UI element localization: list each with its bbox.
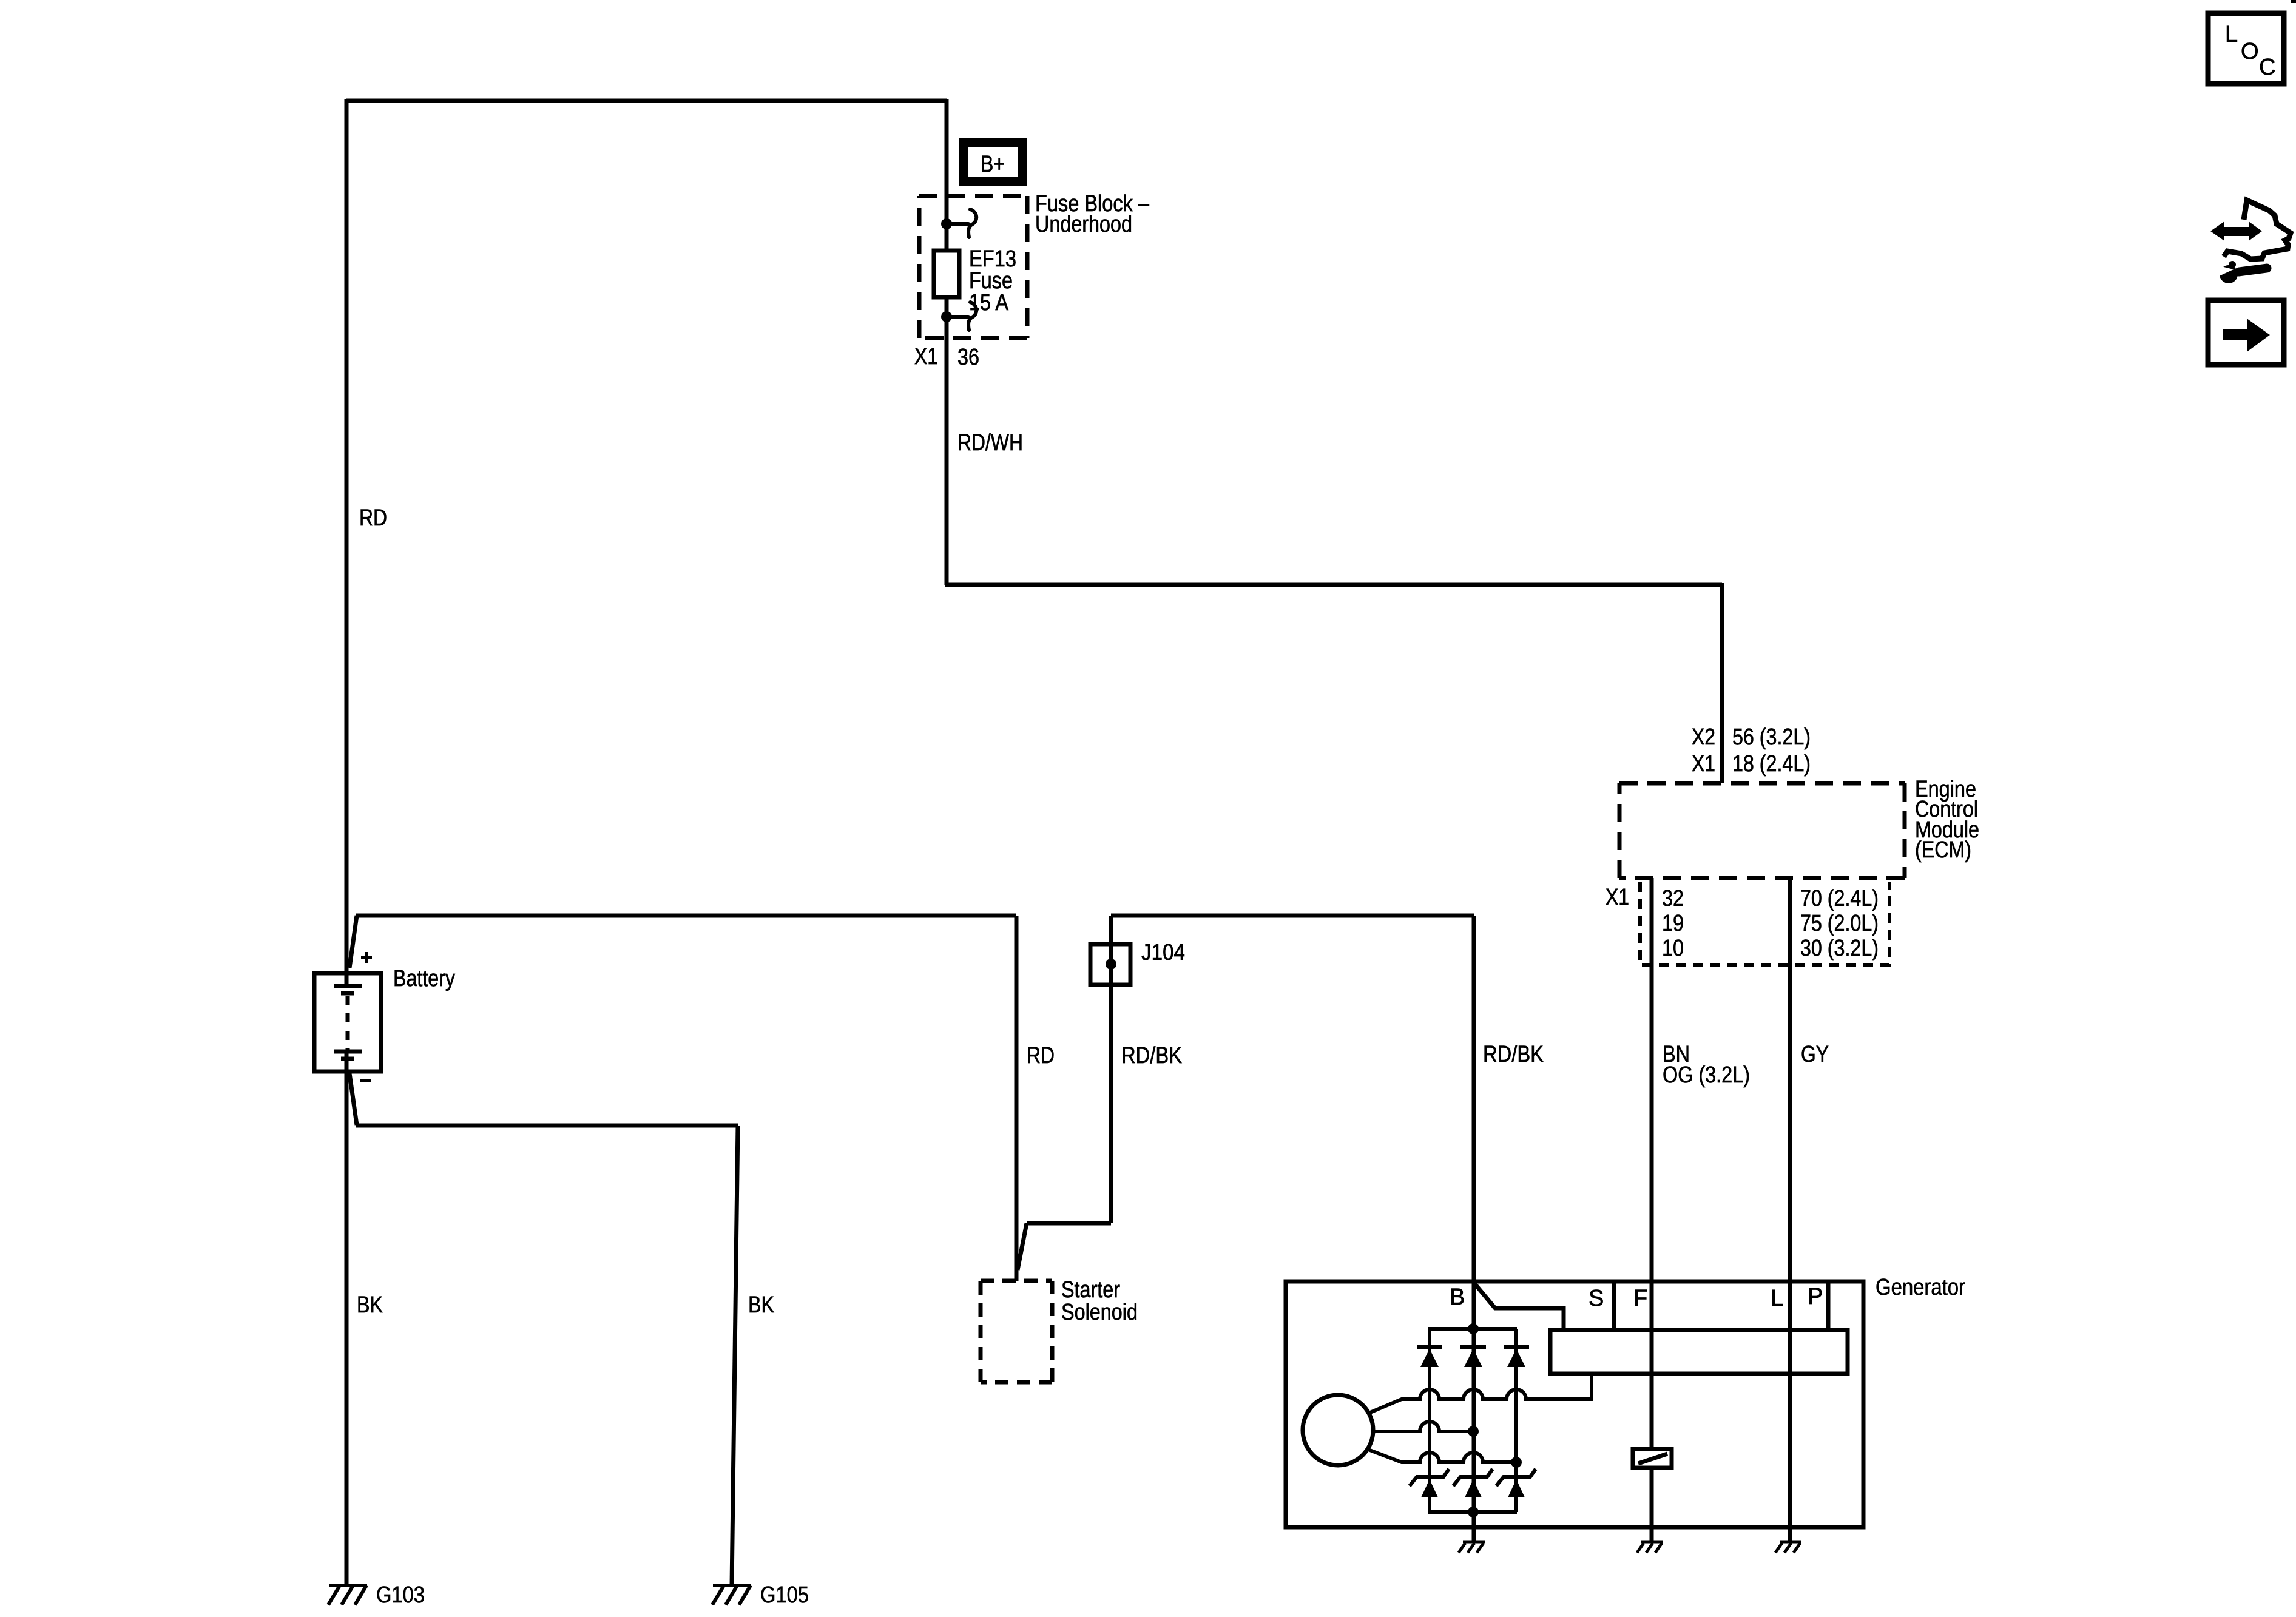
wire: slant splice joint above starter solenoid: [1018, 1223, 1027, 1270]
svg-text:BK: BK: [357, 1292, 383, 1318]
stator winding row 2 with hop: [1373, 1422, 1473, 1431]
wire: RD/WH horizontal run to ECM: [945, 583, 1722, 587]
upper diode triangle column 2: [1464, 1349, 1482, 1367]
wire: RD/BK vertical through J104 splice: [1109, 916, 1113, 1223]
wire: BN field control from ECM to generator F: [1650, 878, 1654, 1542]
rotor circle: [1303, 1395, 1373, 1465]
battery cell 2 long plate: [334, 1050, 362, 1054]
svg-text:J104: J104: [1141, 940, 1185, 965]
svg-text:C: C: [2259, 55, 2275, 80]
stator winding row 3 with hops: [1368, 1450, 1516, 1462]
svg-text:G103: G103: [376, 1582, 425, 1608]
battery cell 1 short plate: [341, 991, 354, 996]
part locator icon: double arrow: [2210, 221, 2262, 241]
wire: RD/BK horizontal from J104 to generator B feed: [1111, 914, 1474, 918]
svg-text:30 (3.2L): 30 (3.2L): [1800, 936, 1879, 961]
svg-text:X1: X1: [1606, 885, 1629, 910]
wire: S terminal stub: [1612, 1281, 1616, 1330]
wire: RD vertical down to starter solenoid: [1015, 916, 1019, 1281]
upper diode triangle column 3: [1507, 1349, 1525, 1367]
svg-text:L: L: [1771, 1286, 1783, 1311]
svg-text:36: 36: [957, 345, 979, 370]
junction dot row 2: [1468, 1426, 1479, 1437]
svg-text:B: B: [1450, 1284, 1465, 1310]
wire: RD/WH vertical drop into ECM pin X2-56 / X1-18: [1720, 583, 1724, 783]
upper diode bar column 1: [1417, 1345, 1442, 1349]
svg-text:B+: B+: [981, 152, 1005, 177]
fuse EF13 element: [934, 251, 959, 297]
stator winding row 1 with hops: [1370, 1374, 1592, 1413]
svg-text:RD/WH: RD/WH: [957, 430, 1023, 456]
starter solenoid dashed box: [981, 1281, 1052, 1382]
junction dot on bottom bus: [1468, 1507, 1479, 1517]
wire: battery positive horizontal bus to starter feed: [356, 914, 1016, 918]
svg-text:32: 32: [1662, 886, 1684, 911]
part locator icon: wrench: [2214, 261, 2267, 283]
lower zener bar column 3: [1496, 1469, 1536, 1486]
svg-text:Solenoid: Solenoid: [1061, 1300, 1138, 1325]
svg-text:L: L: [2225, 22, 2238, 47]
svg-text:RD: RD: [359, 505, 387, 531]
svg-text:X1: X1: [914, 344, 938, 370]
wire: RD/WH vertical through underhood fuse block: [945, 99, 949, 585]
svg-text:X2: X2: [1692, 724, 1715, 750]
wire: RD main vertical from top corner down to battery positive plate: [345, 99, 349, 986]
svg-text:18 (2.4L): 18 (2.4L): [1732, 751, 1811, 777]
diode column 3 vertical: [1514, 1329, 1518, 1512]
junction dot on top bus: [1468, 1323, 1479, 1334]
svg-text:X1: X1: [1692, 751, 1715, 777]
junction dot row 3: [1511, 1457, 1522, 1468]
fusible element on F line: [1633, 1449, 1672, 1468]
lower diode triangle column 2: [1465, 1479, 1482, 1497]
svg-text:BK: BK: [748, 1292, 774, 1318]
wire: P terminal stub: [1826, 1281, 1831, 1330]
forward arrow icon box: [2208, 300, 2284, 365]
lower diode triangle column 1: [1421, 1479, 1438, 1497]
lower diode triangle column 3: [1508, 1479, 1525, 1497]
B+ terminal label box: [959, 138, 1027, 186]
wire: battery negative slant joint: [349, 1073, 357, 1125]
wire: F wire inside generator (over regulator): [1650, 1281, 1654, 1542]
wire: BK vertical down to ground G105: [732, 1126, 738, 1585]
svg-text:RD/BK: RD/BK: [1121, 1043, 1182, 1068]
battery internal dashed link: [346, 996, 350, 1050]
svg-text:O: O: [2241, 39, 2259, 64]
svg-text:OG (3.2L): OG (3.2L): [1663, 1062, 1750, 1088]
terminal hook symbol at fuse output: [947, 302, 976, 330]
upper diode triangle column 1: [1420, 1349, 1439, 1367]
wire: RD battery feed top horizontal run: [346, 99, 947, 103]
svg-text:RD: RD: [1027, 1043, 1055, 1068]
ground symbol below generator L: [1775, 1542, 1801, 1553]
upper diode bar column 2: [1460, 1345, 1486, 1349]
rectifier bottom bus: [1428, 1510, 1517, 1514]
battery box: [314, 973, 381, 1072]
svg-text:70 (2.4L): 70 (2.4L): [1800, 886, 1879, 911]
ECM outer dashed box: [1619, 783, 1905, 878]
generator box: [1286, 1281, 1863, 1527]
svg-text:Starter: Starter: [1061, 1277, 1120, 1303]
svg-text:P: P: [1808, 1284, 1823, 1309]
wire: battery positive slant joint: [349, 916, 357, 968]
wire: GY L-terminal wire from ECM to generator: [1788, 878, 1792, 1542]
rectifier top bus: [1428, 1327, 1517, 1331]
ground G105: [712, 1585, 751, 1605]
part locator icon: part outline: [2224, 200, 2291, 259]
ground G103: [328, 1585, 367, 1605]
lower zener bar column 1: [1410, 1469, 1449, 1486]
svg-text:Generator: Generator: [1876, 1275, 1965, 1300]
fuse block underhood dashed box: [919, 196, 1027, 338]
svg-text:RD/BK: RD/BK: [1483, 1042, 1544, 1067]
svg-text:(ECM): (ECM): [1915, 837, 1971, 863]
LOC icon box top right: [2208, 13, 2284, 84]
svg-text:GY: GY: [1801, 1042, 1829, 1067]
svg-text:10: 10: [1662, 936, 1684, 961]
svg-text:F: F: [1633, 1286, 1647, 1311]
terminal hook symbol at fuse input: [947, 209, 976, 237]
junction dot: J104: [1106, 959, 1116, 970]
diode column 1 vertical: [1428, 1329, 1431, 1512]
battery cell 1 long plate: [334, 984, 362, 988]
svg-text:Battery: Battery: [393, 966, 455, 991]
svg-text:G105: G105: [760, 1582, 809, 1608]
lower zener bar column 2: [1453, 1469, 1493, 1486]
ground symbol below generator B: [1459, 1542, 1485, 1553]
wire: B jog into regulator: [1474, 1283, 1564, 1330]
upper diode bar column 3: [1504, 1345, 1529, 1349]
wire: horizontal from RD wire to J104 branch: [1027, 1221, 1111, 1226]
svg-text:56 (3.2L): 56 (3.2L): [1732, 724, 1811, 750]
page artifact dot top right: [2291, 0, 2296, 3]
wire: BK horizontal run toward G105: [356, 1124, 738, 1128]
voltage regulator box: [1550, 1330, 1848, 1374]
svg-text:19: 19: [1662, 911, 1684, 936]
battery positive sign: [361, 952, 372, 963]
svg-text:S: S: [1589, 1286, 1604, 1311]
battery negative sign: [360, 1079, 371, 1082]
svg-text:75 (2.0L): 75 (2.0L): [1800, 911, 1879, 936]
ECM lower connector dashed box: [1640, 882, 1889, 965]
battery cell 2 short plate: [341, 1057, 354, 1061]
J104 splice box: [1090, 944, 1130, 985]
wire: L wire inside generator (over regulator): [1788, 1281, 1792, 1542]
junction dot: fuse output terminal: [941, 311, 952, 322]
svg-text:15 A: 15 A: [969, 290, 1009, 316]
wire: battery negative vertical down to ground G103: [345, 1052, 349, 1585]
ground symbol below generator F: [1637, 1542, 1663, 1553]
junction dot: fuse input terminal: [941, 218, 952, 229]
wire: RD/BK vertical generator B terminal feed: [1472, 916, 1476, 1542]
svg-text:Underhood: Underhood: [1035, 212, 1132, 237]
